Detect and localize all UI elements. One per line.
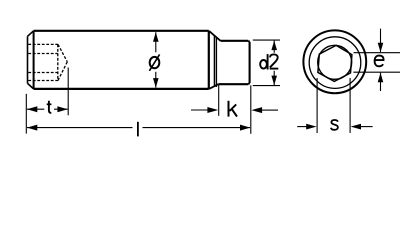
l dimension line [27, 127, 250, 129]
s extension left [316, 78, 318, 133]
wire dog point right face [249, 42, 251, 83]
k dimension line right outside [262, 109, 278, 111]
k and l right extension line [250, 85, 252, 134]
arrow t right [57, 106, 67, 112]
hexagon socket [318, 45, 352, 81]
drill circle [318, 45, 352, 79]
label l glyph [137, 122, 139, 137]
socket upper hex line [28, 53, 58, 55]
wire left bottom chamfer [28, 83, 34, 89]
label d2 glyphs [260, 54, 278, 69]
dimension line diameter [155, 32, 157, 87]
wire left chamfer line [33, 31, 35, 89]
label e glyph [375, 56, 384, 67]
label diameter background [147, 52, 163, 72]
wire dog point bottom right corner [248, 83, 249, 84]
arrow l right [240, 125, 250, 131]
socket drill cone upper [58, 44, 67, 61]
outer circle thread major [303, 30, 366, 93]
d2 extension top [253, 39, 280, 41]
wire right face [213, 35, 215, 85]
socket lower hex line [28, 72, 58, 74]
arrow l left [27, 125, 37, 131]
wire left top chamfer [28, 31, 34, 37]
k left extension line [218, 85, 220, 116]
label d2 background [259, 53, 280, 71]
wire shoulder top slant [209, 31, 221, 41]
socket end vertical [57, 44, 59, 80]
wire shoulder bottom slant [209, 84, 218, 89]
label t background [44, 100, 54, 115]
socket top line [28, 43, 58, 45]
arrow k left [207, 107, 218, 113]
e dimension line lower [380, 73, 382, 91]
s dimension line right outside [361, 126, 373, 128]
label s glyph [331, 120, 338, 130]
arrow e up [378, 73, 384, 83]
s extension right [349, 78, 351, 133]
label t glyph [47, 101, 52, 113]
arrow diameter up [153, 32, 159, 42]
d2 dimension line [273, 41, 275, 86]
wire right chamfer line [208, 31, 210, 89]
hex socket hidden lines [28, 44, 67, 80]
socket drill cone lower [58, 62, 67, 81]
inner circle thread minor [309, 37, 361, 89]
k dimension line left outside [191, 109, 208, 111]
label diameter glyph [149, 54, 159, 70]
wire top edge of body [34, 30, 209, 32]
screw body outline [34, 31, 209, 89]
wire left face [27, 36, 29, 83]
wire dog point top edge [221, 40, 249, 42]
t dimension line [27, 108, 68, 110]
arrow diameter down [153, 78, 159, 88]
socket bottom line [28, 80, 58, 82]
arrow t left [27, 106, 37, 112]
e dimension line upper [380, 29, 382, 53]
arrow k right [251, 107, 262, 113]
end view [303, 30, 366, 93]
s dimension line left outside [297, 126, 307, 128]
t right extension line [67, 68, 69, 116]
wire bottom edge of body [34, 88, 209, 90]
e leader top [354, 52, 400, 54]
wire cone base line [215, 37, 217, 87]
wire dog point bottom edge [218, 83, 248, 85]
arrow d2 down [271, 76, 277, 86]
wire dog point top right corner [248, 41, 249, 42]
e leader bottom [353, 71, 400, 73]
d2 extension bottom [253, 85, 280, 87]
t and l left extension line [25, 94, 27, 134]
arrow s left [306, 124, 316, 130]
label k glyph [229, 101, 238, 117]
label l background [133, 120, 143, 138]
arrow s right [351, 124, 361, 130]
arrow d2 up [271, 41, 277, 51]
arrow e down [378, 43, 384, 53]
